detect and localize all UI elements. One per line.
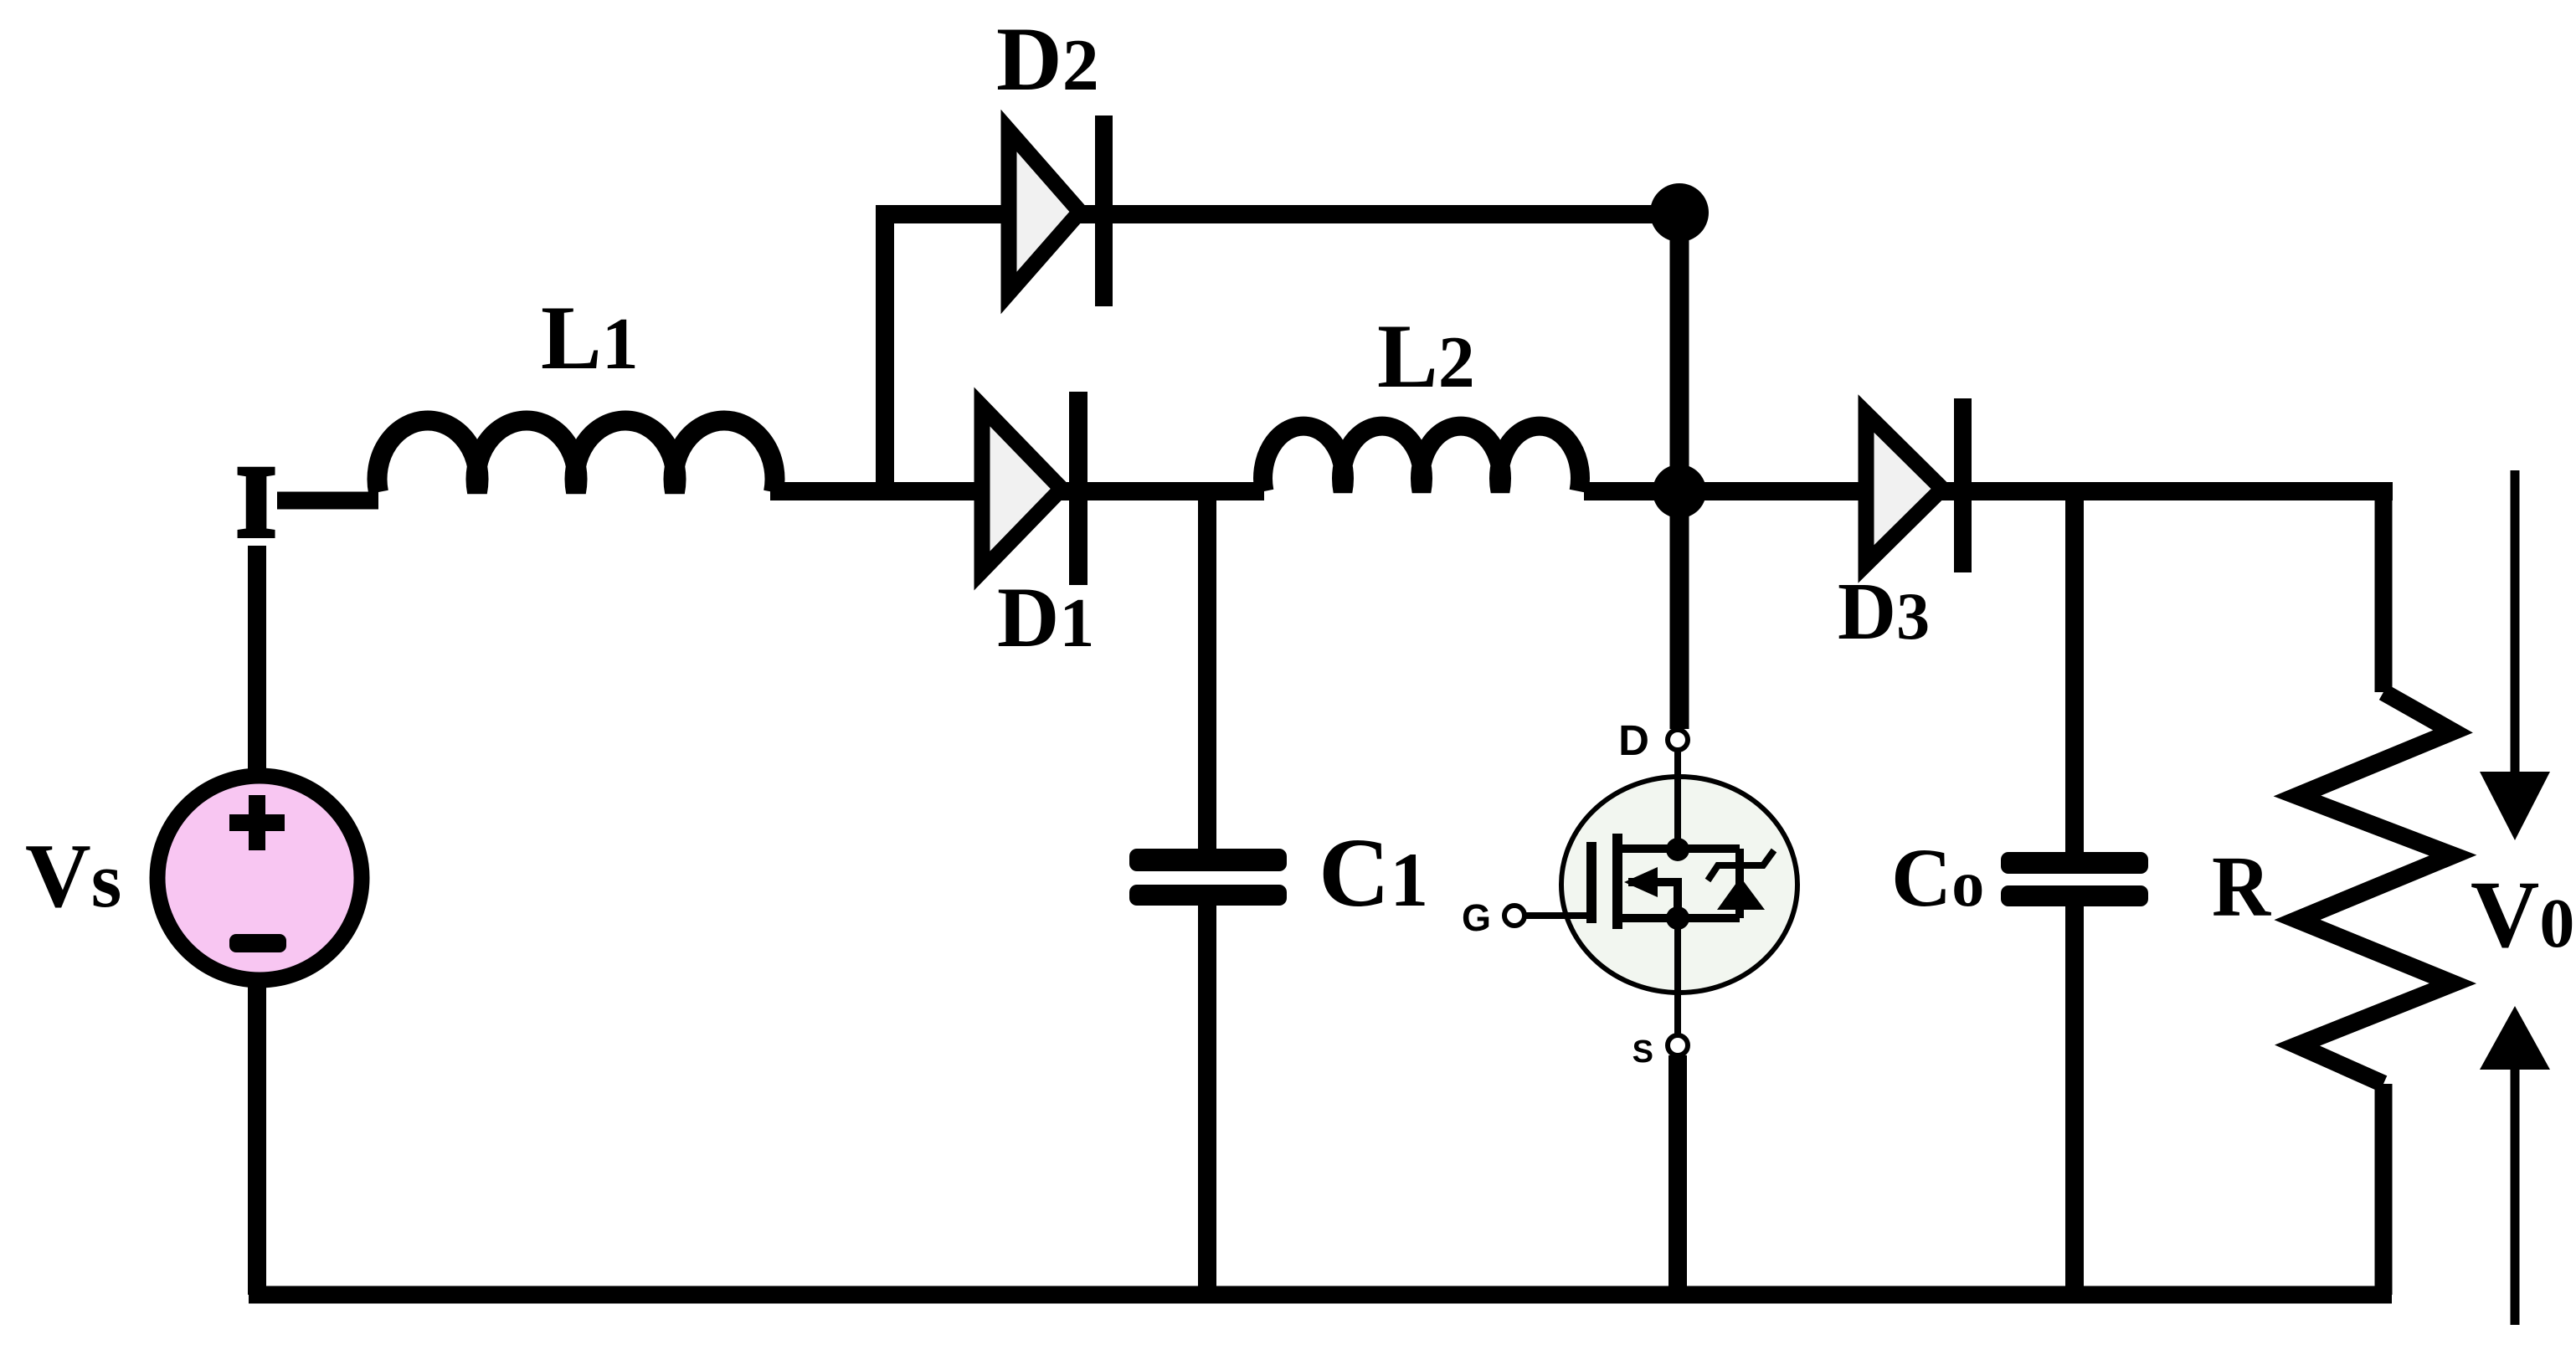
body diode right branch [1735, 849, 1744, 918]
svg-text:G: G [1462, 896, 1491, 939]
wire I down to source Vs [248, 546, 266, 778]
wire D3 to load corner [1972, 482, 2393, 500]
resistor R bottom lead [2375, 1084, 2393, 1295]
source connection bottom [1617, 914, 1740, 922]
S pin circle [1668, 1035, 1688, 1055]
resistor R top lead [2375, 482, 2393, 692]
capacitor Co [2001, 852, 2148, 906]
wire D1 to L2 [1087, 482, 1264, 500]
gate bar [1586, 842, 1597, 923]
diode D3 [1866, 398, 1972, 572]
capacitor Co top lead [2065, 491, 2084, 852]
node junction dot (D2 to L2 node) [1650, 183, 1709, 242]
inductor L1 [377, 421, 774, 492]
diode D1 [982, 392, 1087, 585]
svg-text:I: I [236, 446, 275, 558]
wire L2 to D3 [1584, 482, 1954, 500]
G pin circle [1504, 906, 1525, 926]
plus sign [229, 795, 285, 850]
V0 arrow down [2480, 470, 2550, 840]
capacitor C1 bottom lead [1198, 906, 1216, 1295]
ground return rail (bottom wire) [249, 1286, 2392, 1304]
internal node dot source [1666, 906, 1689, 930]
wire D2 branch horizontal [876, 205, 1679, 223]
svg-text:D3: D3 [1838, 567, 1930, 656]
svg-text:R: R [2212, 839, 2272, 935]
D internal lead [1674, 751, 1681, 849]
capacitor C1 top lead [1198, 491, 1216, 850]
diode D2 [1009, 115, 1113, 306]
G wire [1525, 912, 1590, 919]
internal node dot drain [1666, 838, 1689, 861]
resistor R zigzag [2297, 692, 2453, 1084]
svg-text:D1: D1 [997, 570, 1094, 665]
drain connection top [1617, 844, 1740, 853]
body diode zener cathode [1708, 850, 1774, 880]
svg-text:S: S [1632, 1034, 1653, 1070]
body diode triangle [1717, 877, 1765, 910]
wire L1 to D1 [770, 482, 1069, 500]
S internal lead [1674, 918, 1681, 1034]
minus sign [229, 934, 286, 952]
wire Vs down to ground rail [248, 978, 266, 1295]
circle body [1561, 777, 1797, 993]
capacitor C1 [1129, 849, 1287, 906]
wire MOSFET source to ground rail [1668, 1055, 1687, 1295]
source arrow head [1624, 867, 1658, 897]
voltage source Vs [157, 776, 362, 980]
capacitor Co bottom lead [2065, 906, 2084, 1295]
wire input stub I to L1 [277, 492, 378, 510]
wire vertical up to D2 branch [876, 214, 894, 491]
D pin circle [1668, 730, 1688, 750]
svg-text:Vs: Vs [25, 825, 121, 926]
inductor L2 [1262, 426, 1580, 491]
MOSFET Q1 [1462, 716, 1797, 1070]
wire main center vertical (D2 node down to MOSFET drain) [1670, 211, 1689, 729]
channel bar [1612, 834, 1622, 929]
source arrow line [1628, 882, 1678, 918]
node junction dot (L2 D3 MOSFET node) [1653, 464, 1706, 518]
svg-text:D: D [1618, 716, 1649, 764]
V0 arrow up [2480, 1006, 2550, 1325]
